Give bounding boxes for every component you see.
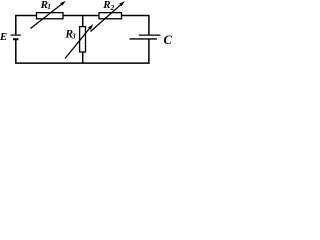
- svg-text:1: 1: [47, 2, 51, 11]
- svg-text:3: 3: [71, 31, 76, 40]
- svg-text:R: R: [102, 0, 110, 11]
- svg-text:E: E: [0, 31, 7, 43]
- svg-text:C: C: [164, 33, 173, 47]
- svg-text:2: 2: [110, 3, 115, 12]
